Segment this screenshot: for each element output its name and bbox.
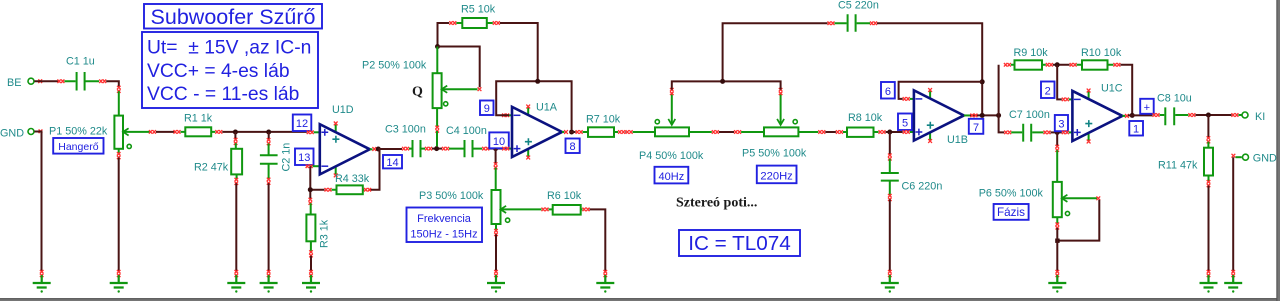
ground (input gnd) [33, 270, 51, 293]
wire R5 left riser [438, 23, 450, 45]
wire U1D output to C3 [378, 148, 402, 150]
capacitor C3 100n [385, 124, 432, 158]
resistor R9 10k [1004, 47, 1053, 70]
capacitor C6 220n [881, 154, 943, 202]
svg-text:10: 10 [493, 136, 505, 148]
svg-text:+: + [1144, 102, 1150, 114]
label box IC = TL074 [679, 230, 800, 256]
svg-text:P1 50% 22k: P1 50% 22k [49, 126, 108, 138]
svg-text:R8 10k: R8 10k [848, 112, 883, 124]
wire R7 to P4 [624, 131, 627, 133]
pin box 9 [480, 101, 494, 116]
junction node P2 bottom / C3-C4 [434, 146, 439, 151]
wire C4 to U1A + input [489, 148, 502, 150]
svg-text:Sztereó poti...: Sztereó poti... [676, 196, 757, 211]
svg-text:C6 220n: C6 220n [902, 181, 943, 193]
info box supply text [142, 32, 318, 108]
wire P1 wiper to R1 [156, 131, 175, 133]
ground (R6) [596, 270, 614, 293]
svg-text:Q: Q [412, 85, 423, 100]
wire R8 to U1B + input [886, 131, 903, 133]
resistor R6 10k [542, 190, 590, 215]
label box Frekvencia 150Hz-15Hz [407, 208, 483, 243]
resistor R10 10k [1070, 47, 1122, 70]
label box Fázis [994, 204, 1029, 220]
wire U1D feedback (output down to R4) [369, 149, 379, 190]
wire C6 to ground [889, 199, 891, 271]
wire R9R10 node to U1C - input [1057, 65, 1062, 100]
junction node feedback tee [980, 79, 985, 84]
wire wiper tee (P4/P5 wipers to C5 riser) [672, 23, 828, 89]
wire R6 to ground [590, 209, 606, 271]
pin box 6 [881, 82, 895, 99]
pin box 3 [1055, 115, 1068, 131]
pin box 12 [293, 115, 312, 132]
wire U1C output to C8 [1128, 114, 1153, 116]
svg-text:7: 7 [973, 122, 979, 134]
potentiometer P5 50% 100k [734, 88, 825, 160]
terminal BE [7, 77, 42, 89]
svg-text:1: 1 [1133, 124, 1139, 136]
capacitor C5 220n [828, 0, 879, 32]
ground (P3) [487, 270, 505, 293]
terminal GND right [1232, 153, 1277, 165]
junction node P2 top [435, 44, 440, 49]
svg-text:150Hz - 15Hz: 150Hz - 15Hz [410, 229, 477, 241]
op-amp U1A [502, 102, 568, 160]
capacitor C8 10u [1153, 93, 1196, 126]
pin box 7 [969, 119, 984, 134]
wire R3 to ground [310, 256, 312, 272]
svg-text:220Hz: 220Hz [760, 170, 793, 182]
svg-text:40Hz: 40Hz [659, 171, 685, 183]
ground (R11) [1200, 270, 1218, 293]
wire P6 bottom to ground [1056, 228, 1058, 272]
svg-text:VCC - = 11-es láb: VCC - = 11-es láb [147, 84, 299, 105]
svg-text:C5 220n: C5 220n [838, 0, 879, 12]
resistor R4 33k [325, 173, 372, 194]
window edge bottom [0, 298, 1280, 301]
svg-text:U1D: U1D [332, 104, 354, 116]
svg-text:GND: GND [1253, 153, 1277, 165]
junction node R11 tap [1206, 113, 1211, 118]
capacitor C7 100n [1004, 109, 1050, 142]
svg-text:C2 1n: C2 1n [281, 143, 293, 172]
capacitor C4 100n [442, 125, 489, 157]
op-amp U1D [306, 104, 377, 177]
window edge right [1276, 0, 1280, 301]
ground (P1) [110, 270, 128, 293]
potentiometer P2 50% 100k [362, 60, 481, 147]
terminal KI [1231, 111, 1265, 123]
svg-text:P3 50% 100k: P3 50% 100k [419, 190, 484, 202]
ground (C6) [881, 270, 899, 293]
wire C8 to KI [1195, 114, 1231, 116]
wire P2 arm (node to wiper) [438, 47, 480, 88]
resistor R7 10k [576, 114, 626, 137]
svg-text:R10 10k: R10 10k [1081, 47, 1122, 59]
wire P6 wiper loop [1059, 200, 1099, 241]
junction node P6 bottom [1055, 239, 1059, 243]
junction node R5 drop [535, 79, 540, 84]
wire U1D - input down to R3/R4 junction [310, 166, 324, 199]
svg-text:U1C: U1C [1101, 83, 1123, 95]
svg-text:C3 100n: C3 100n [385, 124, 426, 136]
svg-text:2: 2 [1045, 85, 1051, 97]
svg-text:GND: GND [0, 128, 24, 140]
junction node R9/R10 [1055, 62, 1060, 67]
resistor R1 1k [174, 113, 223, 137]
label box Hangerő [53, 138, 103, 154]
capacitor C2 1n [260, 138, 293, 185]
label box 40Hz [655, 167, 689, 184]
polarity box + (C8) [1140, 99, 1154, 114]
junction node R9/C7 [996, 113, 1001, 118]
wire U1A output to R7 [570, 131, 576, 133]
svg-text:P5 50% 100k: P5 50% 100k [742, 148, 807, 160]
svg-text:U1A: U1A [536, 102, 558, 114]
wire P3 bottom to ground [495, 234, 497, 271]
svg-text:3: 3 [1058, 119, 1064, 131]
wire C1 to P1 top [106, 81, 119, 87]
svg-text:C4 100n: C4 100n [446, 125, 487, 137]
junction node wiper tee [720, 79, 725, 84]
svg-text:KI: KI [1255, 111, 1265, 123]
junction node U1D output [376, 147, 381, 152]
pin box 14 [383, 155, 402, 169]
svg-text:IC = TL074: IC = TL074 [688, 232, 791, 255]
svg-text:13: 13 [298, 152, 310, 164]
junction node P3 top [493, 146, 498, 151]
svg-text:8: 8 [570, 141, 576, 153]
junction node U1C output [1130, 113, 1135, 118]
svg-text:R1 1k: R1 1k [184, 113, 213, 125]
ground (P6) [1048, 270, 1066, 293]
svg-text:U1B: U1B [947, 134, 968, 146]
svg-text:6: 6 [885, 86, 891, 98]
svg-text:Ut= ± 15V ,az IC-n: Ut= ± 15V ,az IC-n [147, 38, 311, 59]
wire bus to R2 [234, 132, 236, 140]
wire C6 tap down [889, 132, 891, 155]
wire C7 to U1C + input [1051, 131, 1062, 133]
ground (R2) [227, 270, 245, 293]
wire R11 tap down [1207, 115, 1209, 138]
pin box 5 [898, 114, 912, 131]
ground (GND right) [1224, 270, 1242, 293]
pin box 1 [1129, 121, 1143, 136]
svg-text:Subwoofer Szűrő: Subwoofer Szűrő [151, 5, 316, 29]
resistor R5 10k [449, 4, 500, 29]
potentiometer P3 50% 100k [419, 162, 542, 236]
wire P3 riser [495, 149, 497, 164]
junction node U1A output [569, 130, 574, 135]
pin box 8 [566, 139, 580, 154]
potentiometer P6 50% 100k [979, 145, 1101, 230]
wire U1A feedback (- input loop) [496, 81, 571, 129]
junction node C6 tap [887, 130, 892, 135]
wire R5 right to U1A feedback top [500, 23, 538, 79]
svg-text:VCC+ = 4-es láb: VCC+ = 4-es láb [147, 61, 290, 82]
wire P4 to P5 [719, 131, 734, 133]
pin box 13 [295, 149, 314, 166]
title box "Subwoofer Szűrő" [144, 4, 322, 29]
op-amp U1C [1062, 83, 1129, 144]
svg-text:Fázis: Fázis [997, 206, 1025, 219]
svg-text:5: 5 [902, 117, 908, 129]
junction node R3/R4 [308, 187, 313, 192]
wire U1B - input net [899, 82, 983, 99]
wire GND right to ground [1232, 157, 1234, 272]
op-amp U1B [903, 88, 968, 146]
svg-text:R6 10k: R6 10k [547, 190, 582, 202]
wire R11 to ground [1208, 186, 1210, 272]
pin box 10 [489, 132, 509, 148]
svg-text:R7 10k: R7 10k [586, 114, 621, 126]
svg-text:R11 47k: R11 47k [1158, 160, 1198, 172]
capacitor C1 [57, 56, 106, 91]
wire R2 to ground [235, 183, 237, 271]
pin box 2 [1041, 82, 1055, 99]
svg-text:C8 10u: C8 10u [1157, 93, 1192, 105]
resistor R8 10k [836, 112, 886, 137]
svg-text:R2 47k: R2 47k [194, 162, 229, 174]
wire P2 top lead [436, 47, 438, 74]
junction node R2 [233, 130, 238, 135]
svg-text:R4 33k: R4 33k [335, 173, 370, 185]
label box 220Hz [757, 166, 797, 184]
wire P1 bottom to ground [118, 158, 120, 272]
svg-text:9: 9 [484, 103, 490, 115]
wire bus to C2 [268, 132, 270, 140]
wire C2 to ground [268, 183, 270, 272]
wire C3 to C4 node [432, 148, 442, 150]
svg-text:12: 12 [296, 118, 308, 130]
terminal GND left [0, 128, 42, 140]
wire U1C + node to P6 [1056, 132, 1058, 146]
wire P5 to R8 [825, 131, 836, 133]
resistor R11 47k [1158, 136, 1213, 187]
svg-text:P4 50% 100k: P4 50% 100k [639, 150, 704, 162]
wire R10 to U1C output [1120, 65, 1132, 113]
svg-text:14: 14 [386, 157, 398, 169]
resistor R3 1k [306, 198, 330, 257]
wire C5 right to U1B net [877, 23, 982, 113]
potentiometer P4 50% 100k [626, 88, 719, 162]
svg-text:P6 50% 100k: P6 50% 100k [979, 188, 1044, 200]
ground (C2) [260, 270, 278, 293]
svg-text:R3 1k: R3 1k [319, 219, 331, 248]
resistor R2 47k [194, 138, 242, 185]
junction node P6 tap [1055, 130, 1060, 135]
junction node C2 [266, 130, 271, 135]
svg-text:C7 100n: C7 100n [1009, 109, 1050, 121]
wire R1 to U1D + input (mid bus) [222, 131, 306, 133]
svg-text:C1 1u: C1 1u [66, 56, 95, 68]
wire U1B output to C7/R9 node [964, 114, 971, 116]
svg-text:R9 10k: R9 10k [1014, 47, 1049, 59]
wire R9 riser and C7 drop [999, 65, 1005, 133]
wire R9 to R10 [1053, 64, 1070, 66]
potentiometer P1 50% 22k [49, 86, 156, 159]
wire GND terminal down to ground [34, 132, 41, 272]
svg-text:P2 50% 100k: P2 50% 100k [362, 60, 427, 72]
ground (R3) [302, 270, 320, 293]
svg-text:R5 10k: R5 10k [461, 4, 496, 16]
svg-text:Hangerő: Hangerő [58, 141, 98, 153]
svg-text:Frekvencia: Frekvencia [417, 213, 472, 225]
svg-text:BE: BE [7, 77, 21, 89]
wire BE to C1 [34, 80, 59, 82]
junction node feedback/output [980, 113, 985, 118]
